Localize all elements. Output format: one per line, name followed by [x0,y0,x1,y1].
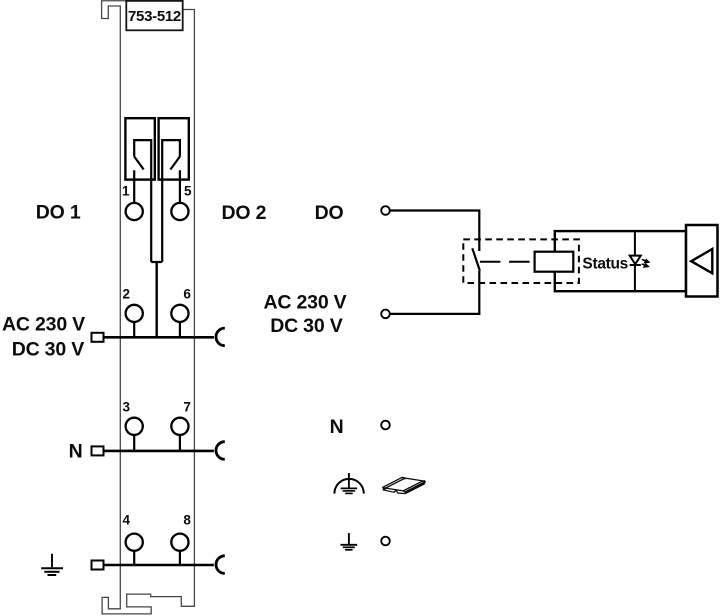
svg-text:5: 5 [184,184,192,199]
svg-text:DO: DO [315,202,344,224]
svg-text:N: N [69,440,83,462]
socket arc PE [216,556,225,574]
svg-text:753-512: 753-512 [128,8,181,25]
socket arc L [216,328,225,346]
contact box K2 [159,118,189,179]
svg-text:DO 1: DO 1 [36,202,81,224]
field terminal PE [381,537,390,546]
LED D1 [630,256,641,265]
svg-text:7: 7 [183,400,191,415]
marker triangle [691,249,712,273]
contact symbol K1 [134,140,151,262]
wire terminal8 stub [179,551,181,565]
wire terminal1 stub [133,170,135,203]
plug terminal N [92,446,104,455]
ground symbol left [41,554,63,575]
functional earth symbol (dome) [334,473,363,494]
module marker box (triangle) [686,225,718,297]
wire actuator to L bus [155,262,157,337]
L bus wire AC230V [104,336,214,339]
DIN rail icon [383,477,426,494]
plug terminal PE [92,561,104,570]
svg-text:DC 30 V: DC 30 V [12,338,84,360]
wire terminal6 stub [179,322,181,337]
contact symbol K2 [162,140,180,262]
svg-text:AC 230 V: AC 230 V [2,313,85,335]
terminal 6 [171,305,188,322]
socket arc N [216,442,225,460]
relay coil [535,252,574,272]
N bus wire [104,450,214,453]
wire DO to switch [390,211,480,252]
svg-text:2: 2 [122,286,130,301]
ground symbol mid [341,533,358,550]
terminal 2 [126,305,143,322]
PE bus wire [104,564,214,567]
svg-text:Status: Status [582,256,628,273]
LED light arrows [642,259,649,267]
wire terminal7 stub [179,435,181,451]
contact box K1 [125,118,154,179]
wire terminal3 stub [133,435,135,451]
field terminal L [381,310,390,319]
label box 753-512 [126,1,182,30]
terminal 1 [126,203,143,220]
wire terminal2 stub [133,322,135,337]
switch contact blade [472,248,480,271]
relay boundary (dashed) [463,239,579,283]
wire L to switch [390,271,480,314]
svg-text:DC 30 V: DC 30 V [270,315,342,337]
mechanical link (dashed) [480,261,535,263]
terminal 5 [171,203,188,220]
svg-text:3: 3 [122,400,130,415]
plug terminal L [92,333,104,342]
terminal 4 [126,534,143,551]
wire terminal5 stub [179,170,181,203]
field terminal DO [381,206,390,215]
svg-text:6: 6 [183,286,191,301]
status box divider / LED lead [634,231,636,291]
field terminal N [381,421,390,430]
svg-text:1: 1 [122,184,130,199]
status box [555,231,686,291]
svg-text:4: 4 [122,513,130,528]
wire terminal4 stub [133,551,135,565]
svg-text:AC 230 V: AC 230 V [264,291,347,313]
svg-text:DO 2: DO 2 [222,202,267,224]
actuator bar bottom cap [151,261,162,263]
terminal 7 [171,418,188,435]
terminal 8 [171,534,188,551]
terminal 3 [126,418,143,435]
svg-text:8: 8 [183,513,191,528]
svg-text:N: N [330,416,344,438]
module outline 753-512 body [102,1,195,614]
